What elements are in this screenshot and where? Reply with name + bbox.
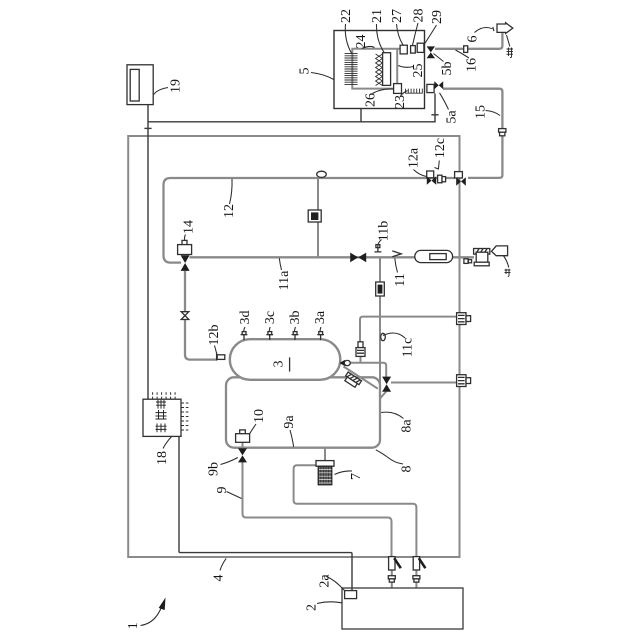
- leader 3b: [294, 327, 297, 332]
- muffler on pipe 11a: [415, 250, 453, 262]
- water tag glyphs: [505, 269, 511, 277]
- valve 5a: [427, 81, 443, 92]
- leader 14: [184, 235, 187, 241]
- check valve on pipe 11a: [350, 253, 366, 263]
- leader 10: [250, 424, 256, 434]
- flow arrow on pipe 11a: [392, 251, 401, 257]
- water inlet arrow: [492, 246, 508, 256]
- leader 8: [376, 450, 403, 464]
- wire tick at 5a branch: [431, 114, 438, 116]
- leader 9a: [290, 430, 294, 447]
- svg-text:8: 8: [400, 466, 415, 473]
- leader CW tag: [504, 256, 509, 268]
- union 12c: [438, 175, 446, 183]
- svg-text:5b: 5b: [440, 62, 455, 76]
- leader 12b: [215, 346, 217, 353]
- compressor feed pipe in box 5: [396, 49, 398, 84]
- leader 18: [163, 437, 172, 449]
- svg-text:11a: 11a: [277, 270, 292, 290]
- leader 3c: [268, 327, 271, 332]
- controller text glyphs: [156, 400, 167, 433]
- leader 25: [398, 66, 413, 68]
- relief valve 11c branch: [356, 342, 365, 357]
- pipe branch x=318 from pipe 12 down to pipe 11a: [317, 178, 319, 257]
- display unit 19: [127, 65, 153, 105]
- relief valve stub to tank pipe: [360, 356, 362, 363]
- engine box 2: [342, 588, 463, 629]
- loop 9a rounded rectangle: [226, 377, 380, 447]
- coupling ring 11c on riser: [381, 333, 386, 340]
- leader 8a: [381, 412, 403, 418]
- engine valve left: [389, 557, 401, 570]
- svg-text:22: 22: [339, 9, 354, 23]
- dryer 27: [400, 45, 407, 54]
- leader 24: [362, 46, 375, 48]
- svg-text:10: 10: [252, 409, 267, 423]
- coupling ticks at boundary: [464, 259, 472, 264]
- pipe stub merging valve 8a to riser: [380, 392, 386, 399]
- valve 14: [178, 240, 192, 271]
- leader 6: [475, 27, 495, 33]
- svg-text:24: 24: [354, 35, 369, 49]
- pipe 16 from valve 5b to exhaust elbow: [435, 33, 502, 49]
- sight glass 28: [411, 46, 416, 54]
- label 3 underline bar: [289, 357, 291, 371]
- coupling on pipe 15: [499, 129, 506, 136]
- leader 5a: [440, 93, 449, 110]
- condenser frame pipe 24: [352, 49, 400, 89]
- refrigeration unit box 5: [334, 31, 425, 109]
- port 11b: [374, 245, 381, 252]
- exhaust arrow 6: [497, 23, 513, 34]
- tank nozzle 3d: [241, 332, 248, 340]
- svg-text:21: 21: [370, 9, 385, 23]
- wire tick: [144, 127, 151, 129]
- coupling left: [388, 576, 395, 582]
- tank 3 vessel: [230, 339, 340, 380]
- svg-text:8a: 8a: [400, 419, 415, 433]
- exhaust tag glyphs: [507, 48, 514, 58]
- leader 15: [486, 111, 501, 116]
- heater coil 23: [406, 89, 423, 94]
- controller dashed wires right: [181, 403, 189, 430]
- leader 22: [345, 24, 352, 54]
- svg-text:9: 9: [215, 487, 230, 494]
- pipe from tank right fitting to valve 8a: [350, 363, 386, 377]
- svg-text:12: 12: [222, 204, 237, 218]
- pipe loop around filter 7 to engine box: [294, 465, 417, 557]
- svg-text:28: 28: [412, 9, 427, 23]
- svg-text:3c: 3c: [263, 311, 278, 324]
- leader 2: [317, 602, 342, 604]
- figure arrow 1: [141, 598, 166, 626]
- wire from controller 18 to engine connector 2a: [179, 436, 352, 590]
- svg-text:2: 2: [305, 604, 320, 611]
- pipe branch y=316.6 to capped port: [360, 317, 458, 342]
- nozzle 12b: [217, 352, 225, 360]
- svg-text:12a: 12a: [407, 147, 422, 168]
- valve 10: [236, 430, 250, 463]
- coupling on pipe 16: [464, 46, 468, 53]
- leader HR tag: [507, 35, 510, 47]
- leader 11b: [378, 240, 382, 248]
- svg-text:3a: 3a: [313, 310, 328, 324]
- capped port F: [457, 375, 471, 387]
- leader 7: [335, 471, 353, 475]
- filter 7: [316, 461, 334, 485]
- coil 21 zigzag: [376, 54, 383, 86]
- svg-text:11c: 11c: [401, 338, 416, 358]
- engine valve right: [413, 557, 425, 570]
- union on pipe to 12b: [181, 312, 189, 320]
- compressor 26: [394, 84, 402, 94]
- leader 23: [401, 91, 408, 96]
- leader 12a: [414, 170, 427, 177]
- coupling right: [413, 576, 420, 582]
- leader 26: [373, 89, 394, 94]
- valve 12a: [427, 171, 437, 185]
- leader 3a: [319, 327, 322, 332]
- svg-text:3: 3: [272, 361, 287, 368]
- wire from 19 tee to valve 5a: [148, 94, 435, 122]
- controller box 18: [143, 399, 181, 436]
- solenoid valve on riser: [376, 282, 385, 296]
- svg-text:19: 19: [169, 79, 184, 93]
- pipe 15 horizontal from valve 5a: [443, 89, 502, 178]
- svg-text:12c: 12c: [433, 138, 448, 158]
- svg-text:15: 15: [474, 105, 489, 119]
- pipe from valve 14 down to tank nozzle 12b: [185, 271, 216, 360]
- tank nozzle 3a: [317, 332, 324, 340]
- leader 2a: [327, 577, 345, 591]
- wire stub from box 5: [360, 109, 362, 122]
- svg-text:29: 29: [430, 10, 445, 24]
- leader 9: [227, 492, 242, 499]
- pipe 12 left leg and bottom to valve 14: [164, 185, 182, 263]
- svg-text:16: 16: [465, 58, 480, 72]
- valve 5b: [427, 46, 435, 58]
- svg-text:14: 14: [182, 220, 197, 234]
- svg-text:5a: 5a: [445, 110, 460, 124]
- svg-text:27: 27: [390, 9, 405, 23]
- pipe 11a main run y=257.3: [190, 256, 475, 258]
- leader 3d: [244, 327, 245, 332]
- leader 12c: [435, 161, 440, 170]
- leader 27: [397, 24, 404, 45]
- leader 11a: [279, 258, 281, 270]
- tank nozzle 3b: [292, 332, 299, 340]
- leader 21: [376, 24, 384, 53]
- sight fitting on pipe 12: [317, 171, 327, 177]
- leader 9b: [221, 458, 238, 465]
- svg-text:5: 5: [298, 68, 313, 75]
- connector 2a: [345, 591, 357, 599]
- svg-text:1: 1: [126, 622, 141, 629]
- boundary valve on pipe 15: [455, 172, 466, 186]
- leader 16: [456, 50, 470, 58]
- leader 29: [424, 25, 437, 46]
- valve 8a: [382, 377, 391, 392]
- svg-text:26: 26: [364, 93, 379, 107]
- fitting 29: [417, 43, 424, 52]
- svg-text:23: 23: [393, 95, 408, 109]
- leader 12: [230, 179, 233, 204]
- coil plate 21: [383, 53, 391, 86]
- leader 11: [395, 258, 398, 272]
- leader 4: [220, 558, 226, 570]
- pipe riser x=380 from pipe 11a down to loop 8: [379, 257, 381, 440]
- svg-text:2a: 2a: [318, 574, 333, 588]
- svg-text:3b: 3b: [288, 311, 303, 325]
- water pump: [474, 249, 490, 266]
- leader 5: [311, 73, 334, 80]
- diagonal pipe from tank right end to riser: [344, 367, 378, 389]
- wire from display 19 down to controller 18: [147, 105, 149, 400]
- svg-text:11: 11: [393, 273, 408, 286]
- svg-text:11b: 11b: [377, 221, 392, 241]
- tank nozzle 3c: [266, 332, 273, 340]
- svg-text:12b: 12b: [207, 325, 222, 346]
- enclosure box 4: [128, 136, 459, 557]
- tank right fitting: [339, 360, 350, 366]
- svg-text:9a: 9a: [282, 415, 297, 429]
- svg-text:3d: 3d: [238, 311, 253, 325]
- svg-text:7: 7: [349, 473, 364, 480]
- pipe branch y=382.5 to capped port F: [391, 382, 458, 384]
- svg-text:18: 18: [155, 451, 170, 465]
- svg-text:4: 4: [212, 575, 227, 582]
- svg-text:9b: 9b: [207, 462, 222, 476]
- capped port upper: [457, 313, 471, 325]
- pipe 12 top run y=178: [164, 178, 456, 185]
- svg-text:6: 6: [466, 36, 481, 43]
- controller dashed wires top: [153, 392, 176, 399]
- svg-text:25: 25: [411, 64, 426, 78]
- leader 11c: [383, 333, 405, 338]
- leader 28: [413, 23, 419, 45]
- pipe from valve 10 down and right to engine box: [243, 462, 392, 557]
- pump on diagonal: [343, 372, 361, 388]
- leader 5b: [434, 54, 444, 62]
- solenoid valve on branch x=318: [308, 210, 321, 222]
- evaporator fins 22: [345, 54, 358, 85]
- pipe stub from loop to filter 7: [324, 448, 326, 462]
- pipe drops into engine box 2: [392, 570, 417, 588]
- leader 19: [154, 88, 169, 95]
